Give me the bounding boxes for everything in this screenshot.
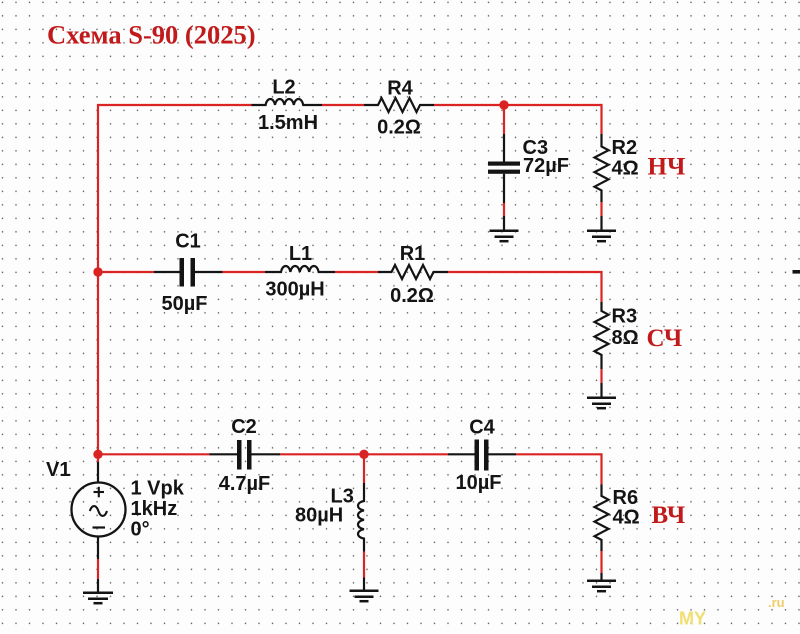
svg-text:СЧ: СЧ: [647, 325, 683, 352]
node junction bottom (L3): [359, 450, 368, 459]
svg-text:R2: R2: [612, 137, 638, 159]
wire middle row red segments: [98, 271, 154, 273]
node junction middle-left: [93, 267, 102, 276]
svg-text:R1: R1: [400, 243, 426, 265]
inductor L1: [265, 266, 335, 272]
svg-text:4.7µF: 4.7µF: [219, 473, 271, 495]
ground (C3): [490, 231, 519, 241]
wire top right corner down to R2: [600, 104, 602, 134]
svg-text:4Ω: 4Ω: [613, 507, 640, 529]
svg-text:V1: V1: [46, 459, 70, 481]
ground (R3): [587, 398, 616, 408]
inductor L3: [363, 454, 365, 483]
resistor R4: [364, 98, 434, 112]
wire left vertical bus: [98, 105, 252, 454]
inductor L2: [252, 99, 323, 105]
capacitor C1: [154, 271, 180, 273]
svg-text:ВЧ: ВЧ: [652, 502, 686, 529]
svg-text:0°: 0°: [131, 519, 150, 541]
svg-text:300µH: 300µH: [265, 279, 324, 301]
capacitor C3: [503, 105, 505, 134]
svg-text:0.2Ω: 0.2Ω: [390, 285, 434, 307]
node stub right edge (cut-off): [793, 270, 800, 274]
ground (V1): [83, 593, 113, 603]
svg-text:1 Vpk: 1 Vpk: [131, 478, 185, 500]
svg-text:0.2Ω: 0.2Ω: [377, 117, 421, 139]
ground (L3): [350, 591, 379, 601]
resistor R2: [595, 134, 609, 202]
svg-text:1.5mH: 1.5mH: [258, 112, 318, 134]
svg-text:R3: R3: [612, 306, 638, 328]
resistor R3: [595, 302, 609, 369]
svg-text:R4: R4: [387, 78, 413, 100]
wire bottom row red segments: [98, 453, 210, 455]
svg-text:L1: L1: [289, 243, 312, 265]
svg-text:C1: C1: [175, 231, 201, 253]
svg-text:50µF: 50µF: [162, 293, 208, 315]
wire top row red segments: [322, 104, 364, 106]
svg-text:.ru: .ru: [768, 595, 785, 610]
svg-text:72µF: 72µF: [523, 155, 569, 177]
svg-text:L2: L2: [272, 77, 295, 99]
resistor R1: [378, 265, 448, 279]
svg-text:1kHz: 1kHz: [131, 498, 178, 520]
capacitor C4: [448, 453, 475, 455]
svg-text:НЧ: НЧ: [648, 154, 686, 181]
svg-text:C2: C2: [231, 416, 257, 438]
svg-text:80µH: 80µH: [295, 505, 343, 527]
svg-text:8Ω: 8Ω: [612, 327, 639, 349]
ground (R6): [587, 581, 616, 591]
capacitor C2: [210, 453, 238, 455]
resistor R6: [595, 485, 609, 552]
svg-text:Схема S-90 (2025): Схема S-90 (2025): [47, 20, 256, 50]
svg-text:C4: C4: [469, 417, 495, 439]
svg-text:10µF: 10µF: [456, 472, 502, 494]
node junction top (to C3): [499, 100, 508, 109]
source V1: [97, 454, 99, 462]
ground (R2): [587, 231, 616, 241]
svg-text:4Ω: 4Ω: [612, 158, 639, 180]
node junction bottom-left (V1): [93, 450, 102, 459]
svg-text:MY: MY: [679, 609, 706, 629]
